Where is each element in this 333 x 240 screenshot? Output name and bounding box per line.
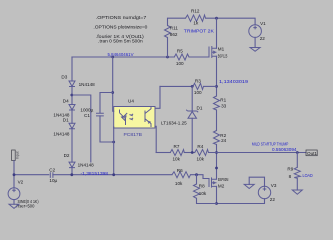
wire (71, 87, 73, 105)
svg-text:D4: D4 (63, 99, 69, 104)
svg-text:D3: D3 (61, 74, 67, 79)
svg-text:BSP125: BSP125 (218, 54, 228, 59)
svg-text:10k: 10k (199, 191, 207, 196)
wire U4 emitter drop (155, 126, 156, 152)
diode D4 (69, 105, 75, 111)
wire (13, 200, 15, 205)
wire top rail (72, 56, 174, 58)
junction rail/U4 riser (111, 56, 114, 59)
svg-text:R6: R6 (177, 168, 183, 173)
junction riser/C1 (111, 91, 114, 94)
junction chain/jog (70, 94, 73, 97)
wire R11 branch (167, 38, 169, 58)
wire (254, 37, 256, 47)
svg-text:10µ: 10µ (49, 178, 57, 183)
resistor R9 (296, 153, 298, 168)
svg-text:Out1: Out1 (307, 151, 317, 156)
svg-text:-1,38151398: -1,38151398 (81, 171, 109, 176)
svg-text:100: 100 (194, 90, 202, 95)
junction V2/rail (13, 173, 16, 176)
wire U4 left-top riser (113, 57, 114, 111)
svg-text:R5: R5 (177, 49, 183, 54)
svg-text:100: 100 (176, 61, 184, 66)
svg-text:TRIMPOT 2K: TRIMPOT 2K (184, 28, 214, 33)
svg-text:22: 22 (270, 197, 276, 202)
svg-text:V2: V2 (18, 180, 24, 185)
svg-text:U4: U4 (128, 99, 134, 104)
resistor R11 (165, 26, 171, 38)
bottom left rail (14, 174, 49, 176)
resistor R7 (170, 150, 184, 156)
wire M1 drain column (216, 18, 218, 48)
resistor R6 (172, 172, 191, 178)
svg-text:.tran 0 50m 5m 500n: .tran 0 50m 5m 500n (98, 39, 143, 44)
resistor R12 (186, 15, 206, 21)
svg-text:V3: V3 (271, 183, 277, 188)
svg-text:R9: R9 (287, 167, 293, 172)
ground (V3) (244, 184, 254, 188)
port Out1 (306, 150, 317, 156)
svg-text:R8: R8 (199, 184, 205, 189)
svg-text:1,13403019: 1,13403019 (219, 79, 249, 84)
wire (204, 85, 217, 87)
svg-text:MILD STARTUP THUMP: MILD STARTUP THUMP (252, 141, 289, 146)
bottom mid rail (156, 152, 170, 154)
phototransistor inside (145, 107, 151, 127)
svg-text:862: 862 (170, 32, 178, 37)
diode D2 (69, 162, 75, 168)
wire (71, 129, 73, 162)
svg-text:C1: C1 (84, 113, 90, 118)
wire M1 source down (216, 56, 218, 96)
U4 collector riser (155, 86, 160, 108)
resistor R5 (174, 54, 189, 60)
capacitor C1 (100, 93, 113, 114)
junction rail/R11 (166, 56, 169, 59)
svg-text:M2: M2 (218, 183, 225, 188)
wire (216, 145, 218, 180)
diode D1 LT1634 (191, 86, 193, 111)
wire (168, 18, 186, 25)
svg-text:R3: R3 (195, 79, 201, 84)
resistor R3 (193, 83, 204, 89)
svg-text:LT1634-1.25: LT1634-1.25 (161, 120, 187, 125)
svg-text:5,84640461V: 5,84640461V (108, 52, 134, 57)
wire (71, 110, 73, 123)
svg-text:C2: C2 (49, 167, 55, 172)
svg-text:8: 8 (289, 174, 292, 179)
transistor M2 (209, 177, 228, 188)
junction R8/rail (195, 173, 198, 176)
junction source/feedback (215, 85, 218, 88)
voltage source V3 (249, 177, 264, 186)
LED inside (120, 110, 128, 126)
resistor R2 (214, 131, 220, 145)
junction U4 drop/rail (112, 173, 115, 176)
svg-text:1N4148: 1N4148 (79, 82, 96, 87)
ground (R9) (292, 190, 302, 194)
wire top rail to M1 gate (189, 56, 209, 58)
wire U4 lower-left drop (113, 127, 115, 175)
svg-text:0.55063094: 0.55063094 (272, 147, 297, 152)
svg-text:10k: 10k (197, 157, 205, 162)
capacitor C2 (50, 172, 53, 178)
svg-text:33: 33 (221, 103, 227, 108)
junction C1/U4 drop (112, 141, 115, 144)
voltage source V1 (249, 25, 262, 38)
junction diode chain/rail (70, 173, 73, 176)
diode D1b (69, 123, 75, 129)
svg-text:1000µ: 1000µ (80, 108, 93, 113)
ground (V2) (9, 204, 19, 208)
voltage source V2 (8, 188, 20, 200)
wire (13, 161, 15, 188)
svg-text:10k: 10k (175, 181, 183, 186)
svg-text:V1: V1 (260, 21, 266, 26)
svg-text:1k: 1k (193, 21, 199, 26)
svg-text:1N4148: 1N4148 (53, 132, 70, 137)
feedback rail (160, 85, 193, 87)
svg-text:22: 22 (260, 36, 266, 41)
junction bottom rail (215, 202, 218, 205)
wire diode chain (71, 57, 73, 81)
resistor R4 (195, 150, 209, 156)
svg-text:BSP92M: BSP92M (218, 177, 229, 182)
svg-text:R7: R7 (174, 144, 180, 149)
resistor R1 (214, 96, 220, 110)
junction column/output rail (215, 151, 218, 154)
transistor M1 (209, 46, 228, 59)
svg-text:10k: 10k (173, 157, 181, 162)
svg-text:D1: D1 (197, 105, 203, 110)
wire (71, 168, 73, 175)
svg-text:LOAD: LOAD (303, 173, 314, 178)
svg-text:R4: R4 (197, 144, 203, 149)
resistor R8 (196, 175, 198, 184)
svg-text:M1: M1 (218, 46, 225, 51)
svg-text:Input: Input (16, 151, 20, 159)
svg-text:D2: D2 (64, 153, 70, 158)
optocoupler U4 (114, 99, 155, 137)
svg-text:.OPTIONS numdgt=7: .OPTIONS numdgt=7 (96, 15, 147, 20)
svg-text:R1: R1 (220, 98, 226, 103)
svg-text:1N4148: 1N4148 (78, 163, 95, 168)
wire (197, 198, 217, 203)
diode D3 (69, 81, 75, 87)
wire (216, 110, 218, 131)
svg-text:PC817B: PC817B (124, 132, 143, 137)
svg-text:R2: R2 (220, 133, 226, 138)
svg-text:.OPTIONS plotwinsize=0: .OPTIONS plotwinsize=0 (93, 25, 147, 30)
svg-text:R12: R12 (191, 9, 200, 14)
port Input (12, 150, 20, 161)
svg-text:R11: R11 (170, 25, 179, 30)
junction feedback/D1 (191, 85, 194, 88)
wire jog to dead end (72, 95, 91, 162)
junction R12/M1 column (215, 17, 218, 20)
ground (V1) (250, 48, 260, 52)
junction M2 drain (215, 167, 218, 170)
wire R12 to V1 (206, 18, 256, 25)
svg-text:24: 24 (221, 138, 227, 143)
svg-text:D1: D1 (63, 117, 69, 122)
